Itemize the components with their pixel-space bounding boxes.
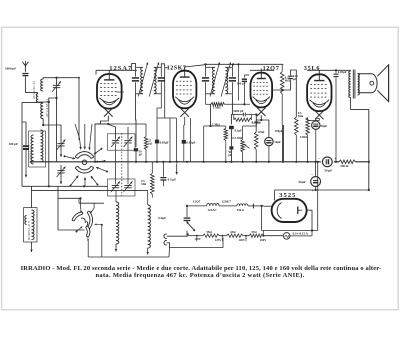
wire V2 cathode down: [184, 117, 186, 125]
svg-text:−: −: [318, 157, 320, 161]
wire V1 side stub: [116, 91, 124, 93]
divider left link: [188, 235, 195, 237]
wire y203 link: [79, 202, 104, 204]
tube V5 3525 rectifier: [272, 199, 307, 222]
IF1 top left lead: [132, 64, 136, 71]
ground arrow below L4: [31, 242, 33, 246]
svg-text:MΩ: MΩ: [298, 114, 304, 118]
IF2 primary tuning arrow: [210, 62, 220, 96]
wire V3 cathode down: [256, 115, 261, 132]
svg-text:10µF: 10µF: [274, 140, 281, 144]
capacitor 0.1uF (black): [229, 126, 234, 129]
wire 50uF cath top: [315, 118, 317, 121]
heater line right: [248, 205, 264, 207]
tap dot 125: [222, 235, 224, 237]
output transformer T1 secondary: [358, 74, 360, 96]
IF1 secondary bottom wire: [157, 94, 161, 108]
svg-text:63Ω: 63Ω: [230, 230, 236, 234]
oscillator padding coil L5: [116, 202, 119, 244]
variable capacitor CV4: [112, 184, 119, 186]
electrolytic 50uF (input filter): [311, 177, 321, 187]
S1 funnel wire left: [75, 124, 80, 138]
wire input cap bottom: [315, 186, 317, 190]
svg-text:1000 pF: 1000 pF: [5, 67, 16, 71]
wire cath to 150: [308, 118, 320, 121]
L5 ground arrow: [115, 244, 117, 252]
S1 arrow bottom-left: [70, 185, 72, 187]
IF1 primary winding: [141, 67, 143, 94]
svg-text:IRRADIO - Mod. FL 20 seconda s: IRRADIO - Mod. FL 20 seconda serie - Med…: [21, 265, 382, 272]
svg-text:MΩ: MΩ: [285, 79, 291, 83]
IF1 primary tuning arrow: [138, 62, 148, 96]
trimmer CT1 ground: [60, 146, 62, 151]
tone capacitor 0.05uF: [335, 70, 337, 73]
electrolytic 50uF cathode: [312, 121, 320, 129]
wire heater tap drop: [261, 206, 263, 231]
IF1 primary bottom wire: [135, 94, 138, 147]
S2 feed wire left: [80, 198, 82, 207]
IF1 primary unit loop: [136, 66, 144, 68]
S2 center arc 1: [81, 218, 85, 223]
wire x189 screen: [190, 118, 192, 162]
resistor 1M grid (horizontal): [211, 103, 225, 107]
S2 wire right leg: [101, 225, 103, 257]
ballast resistor 63 Ohm: [227, 234, 244, 237]
chassis bus line: [30, 161, 339, 163]
svg-text:140V: 140V: [238, 238, 246, 242]
X below V1: [104, 108, 113, 117]
wire 50uF cath bottom: [315, 129, 317, 161]
wire V3 plate to coupling: [272, 79, 291, 90]
wire coupling to grid: [291, 70, 297, 117]
S2 exit arrow bottom: [87, 237, 89, 242]
wire 1M left drop: [210, 104, 213, 126]
oscillator coil L4: [32, 210, 35, 240]
svg-text:1 MΩ: 1 MΩ: [212, 122, 220, 126]
IF1 secondary winding: [154, 67, 156, 94]
band coil L3b: [41, 130, 44, 162]
T1 core: [352, 70, 354, 99]
wire y230 left: [58, 229, 85, 231]
svg-text:3525: 3525: [279, 192, 296, 199]
wire y230 row: [262, 230, 318, 232]
T1 primary bottom wire: [351, 98, 369, 110]
wire y257 to mains: [168, 248, 171, 257]
wire 100pF top: [244, 74, 249, 76]
svg-text:BOBINA 117: BOBINA 117: [28, 144, 32, 163]
V5 cathode arc: [277, 203, 281, 219]
S2 wire down: [87, 242, 89, 258]
variable capacitor CV3: [124, 140, 131, 142]
heater line: [187, 205, 207, 207]
svg-text:0.05µF: 0.05µF: [186, 141, 195, 145]
variable capacitor CV5: [124, 184, 131, 186]
ground arrow below 100pF: [25, 150, 27, 171]
wire avc drop to bus: [203, 126, 205, 162]
speaker voice coil circle: [370, 81, 374, 85]
S1 arrow right-upper: [101, 148, 103, 150]
S1 arrow right-low: [106, 171, 108, 173]
series capacitor 5000 pF: [231, 114, 242, 116]
svg-text:nata. Media frequenza 467 kc.: nata. Media frequenza 467 kc. Potenza d’…: [96, 272, 305, 279]
wire y186: [22, 185, 108, 187]
CV2 wire to bus: [115, 144, 117, 162]
wire grid-cap line V1: [96, 69, 137, 71]
wire V1 cathode down: [95, 116, 108, 162]
wire coil top rail: [43, 78, 79, 79]
svg-text:12SA7: 12SA7: [207, 208, 217, 212]
wire x47.8 vertical: [48, 102, 50, 186]
wire lamp to right: [290, 235, 312, 237]
svg-text:12SK7: 12SK7: [221, 200, 231, 204]
electrolytic 50uF on bus: [321, 160, 334, 164]
wire bottom loop: [170, 247, 224, 249]
S2 wafer segment right crescent: [89, 213, 92, 228]
wire 50pF to bus: [135, 151, 137, 161]
ballast resistor 95 Ohm: [203, 234, 220, 237]
svg-text:12Q7: 12Q7: [263, 65, 280, 72]
svg-text:12Q7: 12Q7: [193, 200, 201, 204]
wire V4 cathode down: [318, 118, 320, 120]
tube V3 12Q7: [251, 73, 273, 108]
mains filter cap 0.5uF: [186, 206, 188, 217]
speaker cone mouth: [388, 65, 390, 102]
svg-text:500 Ω.: 500 Ω.: [340, 164, 349, 168]
svg-text:+: +: [312, 189, 314, 193]
S2 feed wire right: [93, 203, 95, 208]
capacitor 100 pF (left): [23, 145, 29, 147]
IF2 secondary unit loop: [225, 66, 232, 68]
wire 150 to bus: [307, 135, 309, 162]
heater 35L6 bumps: [237, 204, 248, 206]
svg-text:50µF: 50µF: [321, 124, 328, 128]
wire det out: [243, 115, 257, 127]
S1 upper contact horseshoe: [78, 155, 91, 159]
wire left column x22: [21, 102, 23, 186]
mains terminal lower: [164, 241, 167, 245]
svg-text:50µF: 50µF: [298, 180, 305, 184]
svg-text:0.5 MΩ: 0.5 MΩ: [232, 136, 242, 140]
capacitor 0.05uF (black, V2 grid return): [155, 140, 159, 144]
capacitor 0.5uF (below bus): [162, 162, 164, 177]
electrolytic 10uF: [265, 137, 273, 145]
ballast resistor 57 Ohm: [249, 234, 263, 237]
wire 10uF top: [261, 120, 269, 137]
wire L2b bottom: [43, 119, 61, 133]
bottom return wire y257: [88, 256, 169, 258]
CV3 wire to bus: [127, 144, 129, 162]
svg-text:110V: 110V: [194, 237, 201, 241]
IF2 top left lead: [205, 64, 207, 67]
speaker cone: [377, 65, 388, 102]
B+ rail: [204, 63, 283, 65]
resistor 0.5M grid V4: [295, 117, 299, 135]
volume potentiometer 0.5M: [241, 140, 245, 152]
wire avc link y126: [204, 125, 226, 127]
resistor 0.25M plate load: [280, 72, 284, 94]
output transformer T1 primary: [349, 71, 351, 98]
CV4 wire to bus: [115, 162, 117, 185]
tuning gang box lower: [108, 179, 136, 196]
IF2 secondary bottom wire: [231, 94, 233, 96]
svg-text:BOBINA 215: BOBINA 215: [27, 221, 31, 240]
wire 0.5M to bus: [295, 135, 297, 162]
V5 right wire: [307, 210, 312, 230]
svg-text:50 µF: 50 µF: [324, 169, 332, 173]
tuning gang box upper: [108, 134, 136, 150]
wire V2 cath cap to bus: [183, 144, 185, 162]
wire plate line V3: [250, 69, 273, 71]
wire antenna to coil: [25, 76, 37, 93]
svg-text:300µF: 300µF: [275, 129, 283, 133]
IF2 primary unit loop: [206, 66, 215, 68]
wire x170: [169, 118, 171, 162]
wire box top to bus line: [31, 186, 33, 207]
coupling capacitor 0.01 uF: [288, 75, 293, 77]
wire between caps: [230, 129, 232, 146]
wire y190: [32, 189, 148, 191]
svg-text:12SA7: 12SA7: [109, 65, 132, 72]
wire screen drop x79: [78, 78, 80, 140]
svg-text:0.5 µF: 0.5 µF: [168, 177, 177, 181]
S2 wafer segment bottom: [87, 228, 88, 236]
bus inline resistor 500 Ohm: [339, 160, 355, 164]
speaker driver: [359, 74, 377, 93]
heater mid line: [219, 205, 237, 207]
wire 0.05a to bus: [156, 143, 158, 161]
S1 funnel wire mid: [84, 124, 86, 138]
svg-text:−: −: [311, 173, 313, 177]
resistor 1M vertical: [224, 128, 228, 140]
svg-text:AVV.ANT.41: AVV.ANT.41: [45, 99, 49, 117]
svg-text:1 MΩ: 1 MΩ: [213, 106, 221, 110]
wire plate line V4: [307, 69, 350, 71]
S1 arrow bottom-right: [97, 184, 99, 186]
wire V5 filament left: [264, 205, 272, 207]
capacitor 0.05uF (black, V2 cathode): [182, 140, 186, 144]
X below V3: [257, 108, 266, 117]
svg-text:150Ω: 150Ω: [300, 135, 308, 139]
wire input cap top: [315, 162, 317, 177]
svg-text:95Ω: 95Ω: [206, 230, 212, 234]
IF2 top right lead: [231, 64, 233, 67]
pot wiper arrow: [244, 144, 249, 148]
svg-text:35L6: 35L6: [237, 208, 244, 212]
svg-text:125V: 125V: [215, 238, 223, 242]
wire grid line V2: [164, 64, 166, 118]
rotary band switch S1 hub: [82, 160, 87, 165]
tap dot 140: [245, 235, 247, 237]
S2 arrow bottom-left: [76, 231, 78, 233]
wire x176 link: [157, 117, 176, 119]
wire top line corner: [78, 77, 80, 79]
IF2 primary bottom wire: [205, 94, 207, 105]
S1 arrow bottom-mid: [84, 177, 86, 186]
wire plate load to thick drop: [281, 94, 283, 125]
L6 ground arrow: [147, 248, 149, 255]
svg-text:57Ω: 57Ω: [251, 230, 257, 234]
IF2 primary winding: [212, 67, 214, 94]
small coupling loops L4b: [25, 216, 27, 225]
svg-text:125Ω: 125Ω: [257, 130, 265, 134]
CV5 wire to bus: [127, 162, 129, 185]
svg-text:+: +: [334, 157, 336, 161]
tube V1 12SA7: [97, 74, 122, 109]
trimmer CT1: [57, 143, 64, 145]
wire CV1 bottom to bus: [56, 88, 58, 162]
svg-text:pF: pF: [139, 152, 143, 156]
wire switch to divider: [186, 231, 188, 236]
antenna tuned winding L2b: [41, 103, 44, 119]
capacitor 50 pF AVC (black): [229, 146, 233, 149]
svg-text:35L6: 35L6: [304, 65, 321, 72]
svg-text:5000 pF: 5000 pF: [233, 109, 243, 113]
wire 125 to bus: [255, 150, 257, 162]
svg-text:0.05µF: 0.05µF: [338, 70, 347, 74]
resistor 0.5M parallel: [233, 115, 235, 120]
wire x317 drop: [317, 162, 319, 231]
svg-text:MΩ: MΩ: [141, 183, 147, 186]
bus continuation to resistor: [355, 161, 368, 163]
wire B+ riser: [368, 109, 370, 190]
antenna coupling coil L1: [36, 94, 38, 103]
svg-text:160V: 160V: [260, 238, 268, 242]
wire diode line: [231, 96, 233, 115]
svg-text:0.05µF: 0.05µF: [160, 140, 169, 144]
svg-text:100 pF: 100 pF: [9, 142, 19, 146]
wire y124 link: [95, 123, 146, 125]
tap dot 110: [196, 235, 198, 237]
svg-text:1.3MΩ: 1.3MΩ: [251, 120, 260, 124]
capacitor 100 pF coupling: [243, 75, 245, 78]
S1 funnel wire right: [91, 124, 93, 138]
tube V2 12SK7: [173, 71, 196, 109]
capacitor 50 pF (black): [134, 148, 138, 151]
IF1 top right lead: [161, 64, 164, 68]
IF1 secondary tuning arrow: [149, 62, 159, 96]
T1 primary top: [350, 69, 352, 72]
wire 10uF bottom: [268, 146, 270, 162]
svg-text:AVV.OSC.23: AVV.OSC.23: [32, 81, 36, 99]
wire secondary top: [358, 73, 360, 75]
wire coil bottom link: [22, 101, 43, 103]
IF2 secondary tuning arrow: [221, 62, 231, 96]
variable capacitor CV2: [112, 140, 119, 142]
wire 100pF top: [25, 122, 27, 145]
filter coil L6: [148, 205, 151, 248]
pilot lamp: [283, 233, 290, 240]
wire 0.05a top: [156, 108, 158, 140]
svg-text:12SK7: 12SK7: [167, 65, 187, 71]
X below V4: [315, 111, 324, 120]
svg-text:0.1µF: 0.1µF: [235, 129, 242, 133]
resistor 125 Ohm cathode: [254, 132, 258, 150]
band coil L3a: [31, 135, 34, 164]
S1 arrow right-mid: [104, 160, 106, 162]
X below V2: [180, 108, 189, 117]
thick feed line: [282, 125, 284, 162]
box around band coils: [29, 131, 46, 167]
wire CV1 top: [56, 78, 58, 86]
box oscillator coil: [24, 208, 37, 242]
S2 arrow right: [101, 224, 103, 226]
antenna A1: [24, 66, 26, 72]
tube V4 35L6: [307, 74, 331, 111]
heater tick: [252, 204, 254, 209]
wire stub to tube top: [274, 190, 276, 201]
S1 lower contact horseshoe: [78, 166, 91, 170]
wire coupling coil to tuning junction: [38, 98, 56, 102]
chassis arrow below bus: [176, 164, 178, 175]
S2 wafer segment upper-left: [74, 213, 82, 219]
trimmer CT2 ground: [60, 173, 62, 178]
S1 arrow left: [64, 155, 66, 157]
bus junction dots: [94, 161, 96, 163]
svg-text:0.5µF: 0.5µF: [158, 216, 166, 220]
S2 center arc 2: [86, 221, 87, 226]
IF1 secondary unit loop: [154, 66, 162, 68]
wire rectifier output y190: [275, 189, 369, 191]
antenna tuned winding L2a: [41, 79, 44, 91]
svg-text:0.3†–0.15 A: 0.3†–0.15 A: [293, 232, 309, 236]
gang link dashed: [121, 133, 123, 196]
trimmer CT2: [57, 170, 64, 172]
resistor 50 kOhm (osc grid): [144, 137, 147, 150]
mains terminal upper: [164, 234, 167, 238]
divider right end: [263, 235, 283, 237]
heater 12SA7 bumps: [207, 203, 219, 205]
V5 anode bar: [297, 207, 299, 215]
wire x58 vertical: [57, 186, 59, 230]
wire y197: [58, 197, 81, 199]
CV3 top wire: [127, 127, 129, 140]
IF2 secondary winding: [225, 67, 227, 94]
resistor 0.5M left cluster: [151, 173, 155, 194]
power switch S3: [188, 223, 195, 230]
capacitor 1000 pF (antenna series): [22, 73, 28, 74]
resistor 150 Ohm cathode V4: [306, 118, 310, 136]
wire avc to bus: [230, 150, 232, 162]
variable capacitor CV1 (antenna tuning): [53, 84, 60, 86]
CV2 top wire: [95, 124, 116, 140]
